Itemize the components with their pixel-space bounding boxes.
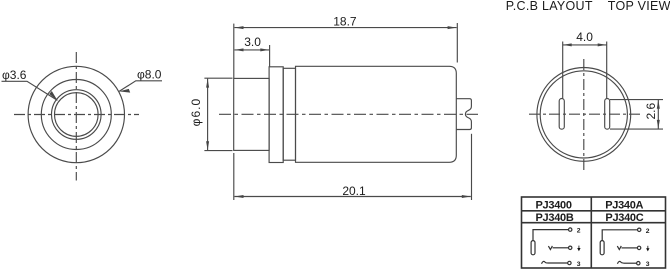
dimension 4.0 (563, 30, 607, 98)
pcb horizontal centerline (529, 113, 640, 115)
pcb right slot pad (605, 99, 610, 130)
svg-text:2: 2 (646, 228, 650, 235)
schematic left: terminal 1 circle (569, 246, 572, 249)
svg-text:2.6: 2.6 (644, 103, 658, 120)
side view hex ring (283, 68, 295, 160)
schematic right: wire to terminal 3 (623, 262, 636, 264)
schematic left: ring contact hump (542, 261, 548, 263)
svg-text:φ3.6: φ3.6 (2, 68, 27, 82)
schematic left: wire to terminal 3 (548, 262, 568, 264)
dimension phi6.0 (189, 78, 233, 150)
table border (522, 197, 666, 268)
schematic left: sleeve pin stadium (531, 228, 572, 265)
schematic right: tip switch contact (617, 246, 621, 250)
label phi8.0 (119, 68, 162, 93)
front view bushing ring outer circle (52, 90, 102, 140)
schematic right: wire to terminal 1 (622, 247, 638, 249)
svg-text:P.C.B LAYOUT TOP VIEW: P.C.B LAYOUT TOP VIEW (506, 0, 670, 13)
front view bore circle (dia 3.6) (55, 93, 99, 137)
svg-text:18.7: 18.7 (333, 14, 357, 28)
svg-text:20.1: 20.1 (342, 184, 366, 198)
pcb vertical centerline (583, 59, 585, 170)
schematic left: wire to terminal 1 (553, 247, 569, 249)
svg-text:PJ340C: PJ340C (605, 212, 643, 224)
pcb inner circle (540, 71, 627, 158)
dimension 2.6 (610, 100, 663, 130)
pcb left slot pad (559, 99, 564, 130)
schematic right: terminal 3 circle (637, 262, 640, 265)
svg-text:4.0: 4.0 (576, 30, 593, 44)
schematic right: terminal 1 circle (637, 246, 640, 249)
svg-text:3: 3 (646, 261, 650, 268)
side view flange washer (269, 67, 283, 163)
schematic left: wire to terminal 2 (533, 230, 569, 241)
schematic left: pin label 1 arrow (577, 246, 580, 252)
svg-text:PJ340B: PJ340B (536, 212, 574, 224)
side view centerline (219, 113, 478, 115)
label phi3.6 (2, 68, 58, 100)
dimension 3.0 (235, 35, 270, 66)
dimension 18.7 (234, 14, 457, 78)
schematic right: ring contact hump (617, 261, 623, 263)
svg-text:3.0: 3.0 (244, 35, 261, 49)
schematic left: tip switch contact (548, 246, 552, 250)
dimension 20.1 (234, 134, 472, 200)
pcb outer circle (537, 68, 631, 162)
svg-text:PJ340A: PJ340A (605, 200, 643, 212)
schematic right: pin label 1 arrow (646, 246, 649, 252)
svg-text:φ6.0: φ6.0 (189, 98, 203, 126)
svg-text:φ8.0: φ8.0 (137, 68, 162, 82)
front view vertical centerline (75, 52, 77, 181)
side view bushing barrel (234, 78, 269, 150)
schematic left: terminal 2 circle (569, 228, 572, 231)
schematic right: wire to terminal 2 (602, 230, 637, 241)
front view outer circle (body dia 8.0) (28, 66, 124, 162)
side view main body (296, 66, 457, 162)
front view horizontal centerline (14, 114, 139, 116)
schematic right: terminal 2 circle (638, 228, 641, 231)
svg-text:2: 2 (577, 228, 581, 235)
side view rear terminal tab (456, 99, 471, 130)
schematic right: sleeve pin stadium (600, 228, 641, 265)
svg-text:3: 3 (577, 261, 581, 268)
front view second circle (41, 80, 111, 150)
schematic left: terminal 3 circle (568, 261, 571, 264)
svg-text:PJ3400: PJ3400 (536, 200, 572, 212)
